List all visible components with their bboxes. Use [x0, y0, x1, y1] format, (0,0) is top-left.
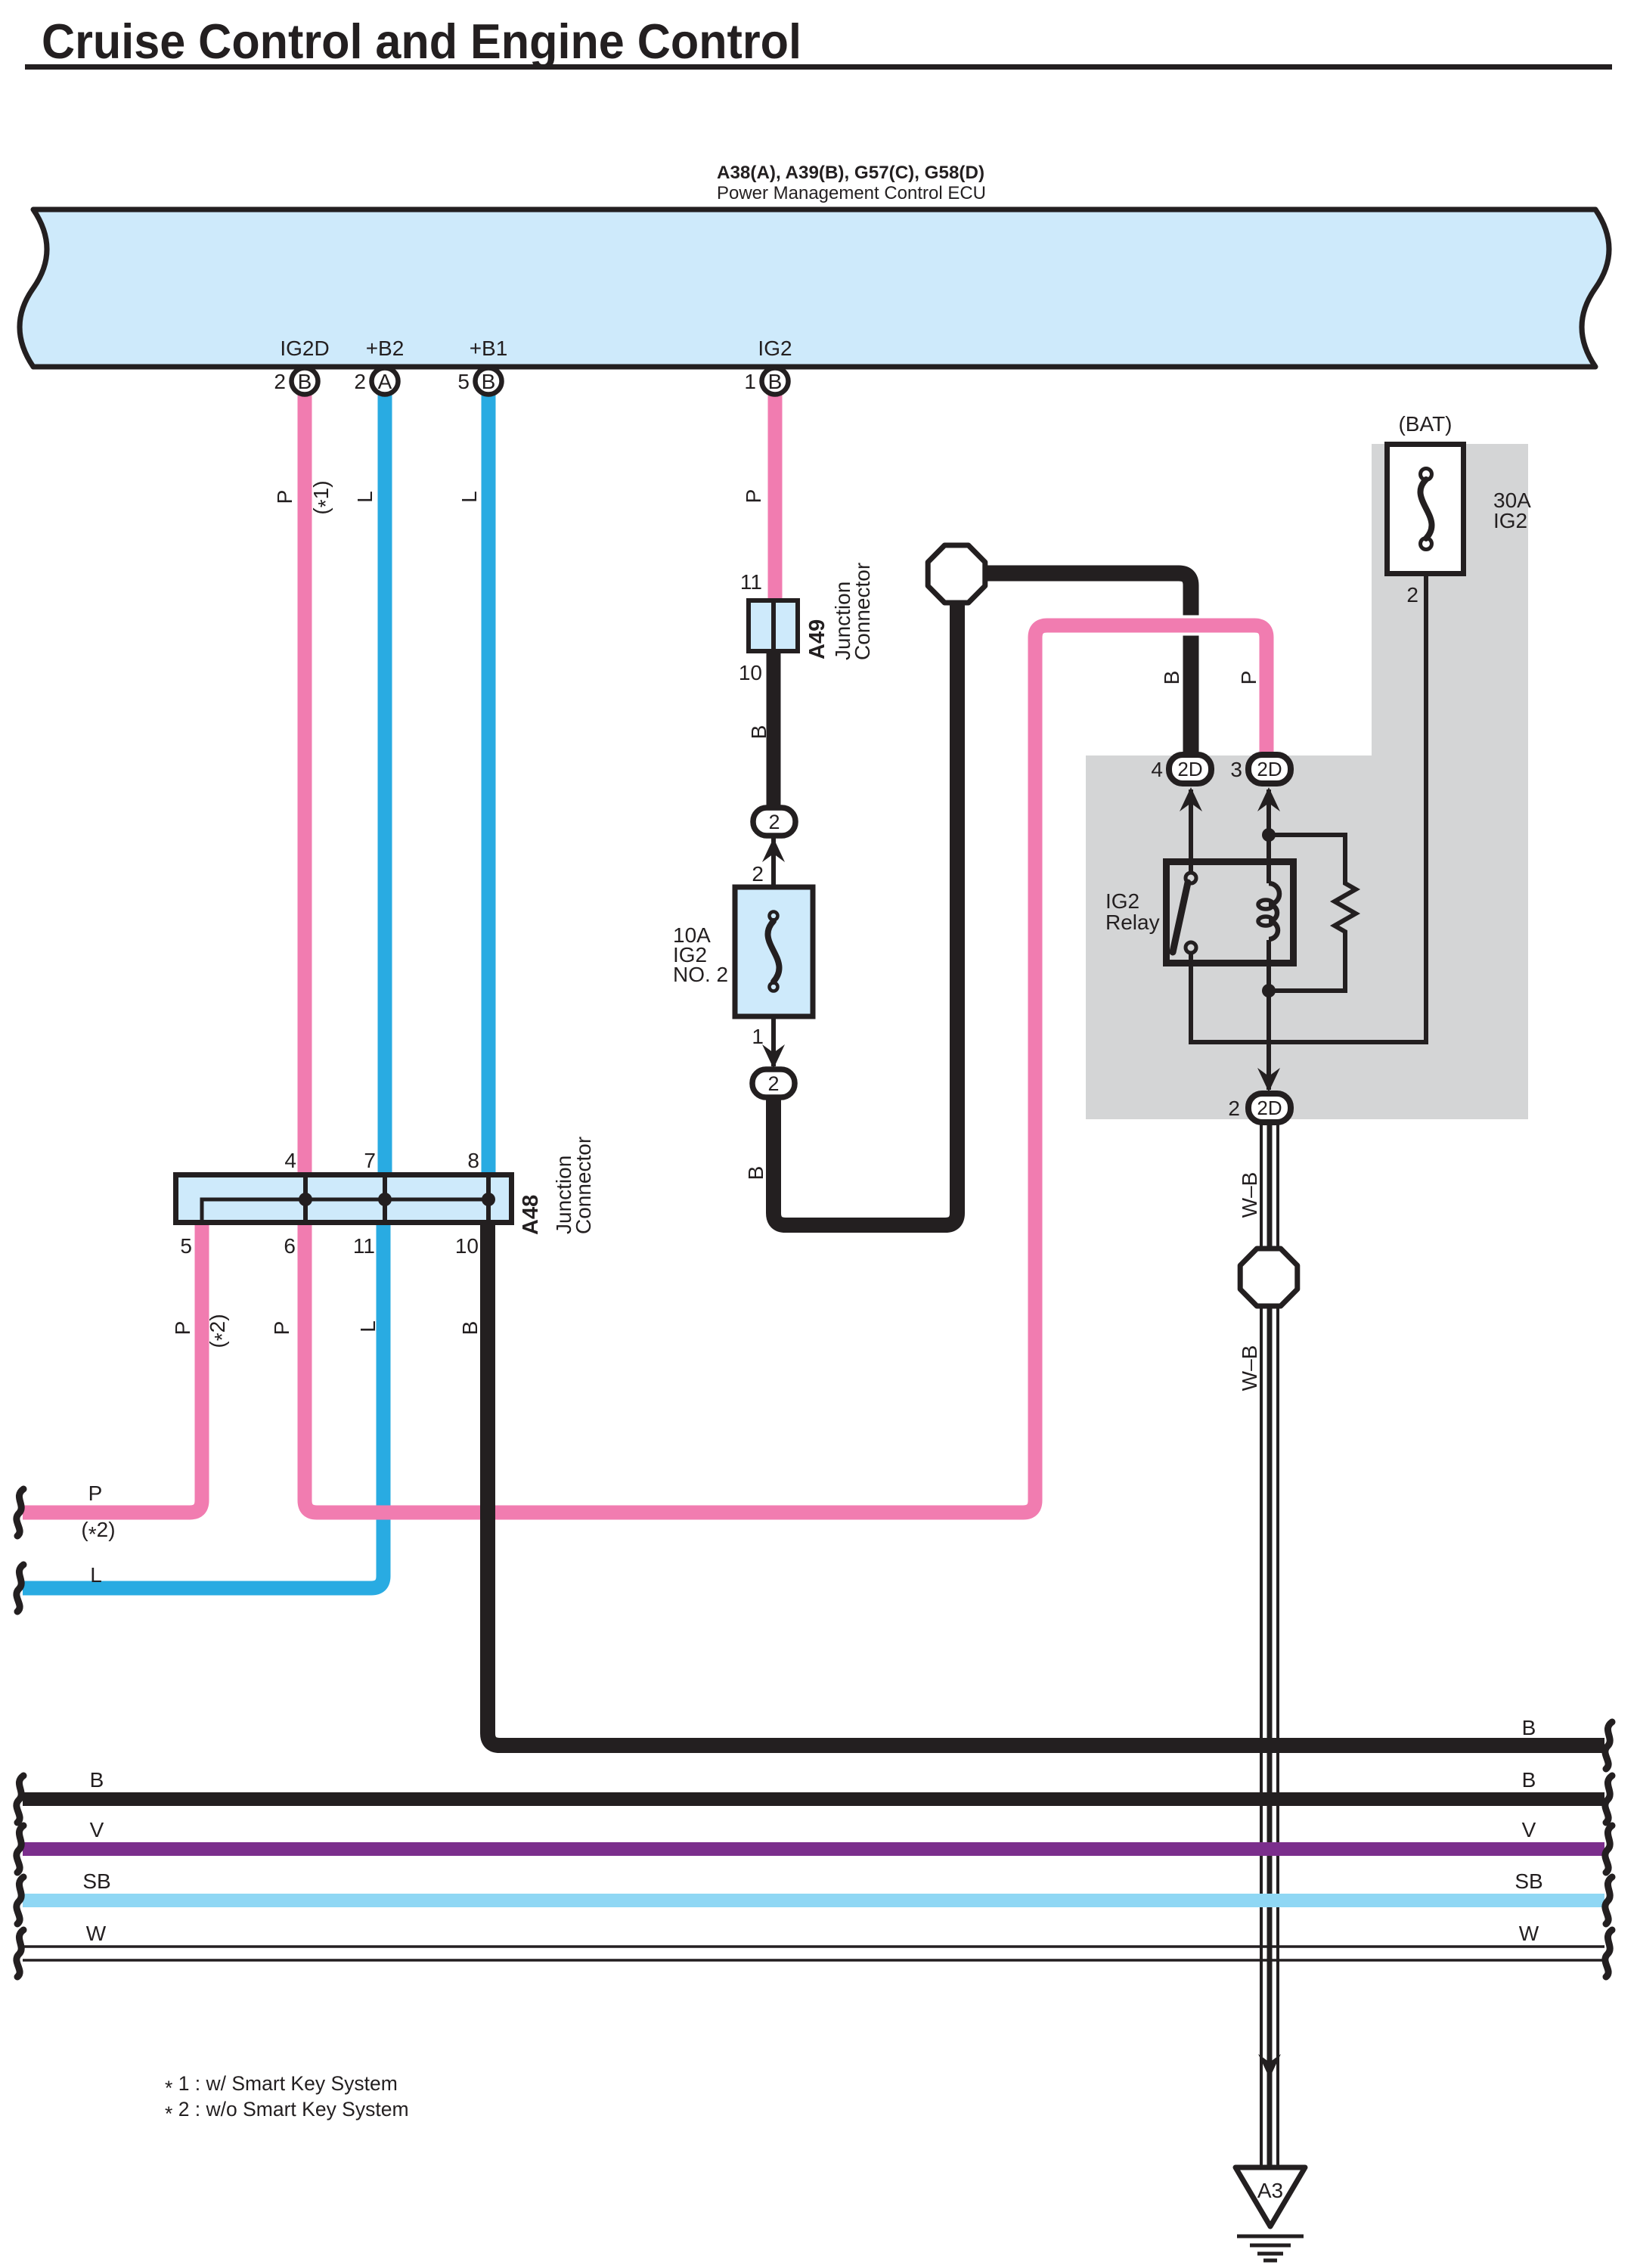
svg-text:11: 11 [353, 1234, 375, 1258]
svg-text:B: B [298, 370, 312, 393]
svg-text:Relay: Relay [1105, 911, 1160, 934]
svg-text:P: P [88, 1481, 103, 1505]
svg-text:L: L [90, 1563, 102, 1587]
svg-text:(*2): (*2) [81, 1518, 115, 1546]
svg-text:B: B [747, 725, 770, 740]
svg-text:6: 6 [284, 1234, 296, 1258]
svg-text:L: L [457, 491, 481, 503]
svg-text:2: 2 [354, 370, 366, 393]
svg-text:B: B [1522, 1768, 1536, 1792]
svg-text:+B1: +B1 [470, 337, 508, 360]
svg-text:1: 1 [752, 1025, 764, 1048]
svg-text:NO. 2: NO. 2 [673, 963, 728, 986]
svg-text:V: V [90, 1818, 104, 1841]
svg-text:IG2: IG2 [1105, 889, 1139, 913]
svg-text:IG2: IG2 [758, 337, 792, 360]
svg-text:B: B [458, 1321, 482, 1336]
svg-text:4: 4 [1151, 758, 1163, 781]
svg-text:(*2): (*2) [206, 1314, 234, 1348]
svg-text:V: V [1522, 1818, 1536, 1841]
svg-text:10: 10 [455, 1234, 479, 1258]
svg-text:SB: SB [1515, 1869, 1542, 1893]
svg-text:A49: A49 [805, 619, 829, 659]
svg-text:4: 4 [284, 1149, 296, 1172]
svg-text:8: 8 [467, 1149, 479, 1172]
svg-text:IG2: IG2 [1493, 509, 1527, 532]
svg-text:A: A [378, 370, 392, 393]
svg-text:2: 2 [1406, 583, 1418, 607]
svg-text:2: 2 [767, 1072, 779, 1095]
svg-text:2: 2 [274, 370, 286, 393]
svg-text:2: 2 [1228, 1097, 1240, 1120]
svg-text:2D: 2D [1177, 758, 1202, 780]
svg-text:2D: 2D [1257, 758, 1282, 780]
svg-text:3: 3 [1230, 758, 1242, 781]
svg-text:(*1): (*1) [309, 480, 337, 514]
svg-text:W: W [1519, 1922, 1539, 1945]
svg-text:5: 5 [457, 370, 470, 393]
svg-text:P: P [742, 489, 765, 504]
svg-text:10: 10 [739, 661, 762, 684]
svg-text:A3: A3 [1257, 2179, 1283, 2202]
svg-text:P: P [1237, 671, 1260, 685]
svg-text:A48: A48 [519, 1195, 543, 1235]
svg-text:2D: 2D [1257, 1097, 1282, 1119]
svg-text:B: B [744, 1166, 767, 1181]
svg-text:A38(A), A39(B), G57(C), G58(D): A38(A), A39(B), G57(C), G58(D) [717, 163, 984, 183]
svg-text:1: 1 [744, 370, 756, 393]
svg-text:2: 2 [752, 862, 764, 886]
svg-text:SB: SB [82, 1869, 110, 1893]
svg-text:B: B [1522, 1716, 1536, 1739]
svg-text:11: 11 [740, 570, 762, 594]
svg-text:(BAT): (BAT) [1398, 412, 1452, 436]
svg-text:B: B [768, 370, 783, 393]
svg-text:IG2D: IG2D [280, 337, 329, 360]
svg-text:L: L [356, 1320, 380, 1333]
svg-text:+B2: +B2 [366, 337, 405, 360]
svg-text:W–B: W–B [1238, 1345, 1261, 1392]
svg-text:7: 7 [364, 1149, 376, 1172]
svg-text:* 2 : w/o Smart Key System: * 2 : w/o Smart Key System [165, 2098, 409, 2125]
svg-text:* 1 : w/ Smart Key System: * 1 : w/ Smart Key System [165, 2072, 398, 2099]
svg-text:P: P [270, 1321, 293, 1336]
svg-text:P: P [273, 490, 296, 504]
svg-text:2: 2 [768, 811, 780, 833]
svg-text:B: B [1160, 671, 1183, 685]
svg-text:W–B: W–B [1238, 1172, 1261, 1218]
svg-text:L: L [353, 491, 377, 503]
svg-text:W: W [86, 1922, 107, 1945]
svg-text:Cruise Control and Engine Cont: Cruise Control and Engine Control [42, 14, 801, 69]
svg-text:5: 5 [180, 1234, 192, 1258]
svg-text:Connector: Connector [851, 563, 874, 660]
svg-text:B: B [482, 370, 496, 393]
svg-text:P: P [171, 1321, 194, 1336]
svg-text:Power Management Control ECU: Power Management Control ECU [717, 183, 986, 203]
svg-text:Connector: Connector [572, 1137, 595, 1234]
svg-text:B: B [90, 1768, 104, 1792]
